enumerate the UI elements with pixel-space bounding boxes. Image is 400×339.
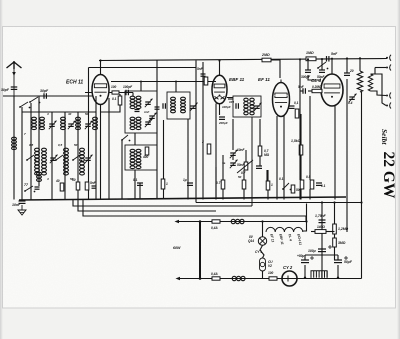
svg-text:1μ: 1μ <box>183 178 187 182</box>
resistor 1.2MΩ <box>333 224 337 234</box>
IF2 coil a <box>171 97 176 100</box>
resistor 1MΩ mid <box>266 181 270 190</box>
svg-text:0,4A: 0,4A <box>211 272 218 276</box>
svg-text:0,5: 0,5 <box>29 143 34 147</box>
svg-text:0.1: 0.1 <box>279 177 284 181</box>
resistor 50k det <box>242 180 246 189</box>
coil L2 <box>40 117 45 120</box>
cap 50uF b <box>334 259 342 261</box>
svg-text:2MΩ: 2MΩ <box>261 53 270 57</box>
svg-text:100: 100 <box>111 85 117 89</box>
resistor 50/1kΩ <box>76 182 80 190</box>
svg-text:100μ: 100μ <box>308 249 316 253</box>
svg-text:1: 1 <box>271 183 273 187</box>
svg-text:10nF: 10nF <box>12 203 21 207</box>
wire det vert x260b <box>259 156 261 166</box>
wire det vert x234 <box>232 119 234 150</box>
heater dropper <box>311 271 327 278</box>
diagonal det wire <box>237 160 253 173</box>
switch top <box>318 62 326 68</box>
wire sec top hook <box>371 74 387 106</box>
svg-text:4: 4 <box>46 177 49 181</box>
wire vert x188 <box>187 119 189 200</box>
wire vert 50uF b <box>337 255 339 260</box>
wire det vert x260 <box>259 119 261 146</box>
tube CY2 rectifier <box>282 271 297 286</box>
resistor 0.5MΩ a <box>300 180 304 189</box>
IF1 trimmer b <box>145 121 151 123</box>
wire vert 50uF a <box>304 255 306 260</box>
cap 0.1uF psu <box>316 182 322 184</box>
wire vert x223 <box>222 155 224 180</box>
cap 10nF trimmer <box>230 152 236 154</box>
svg-text:0.1: 0.1 <box>133 178 138 182</box>
wire vert x310b <box>309 189 311 200</box>
resistor 0.5MΩ b <box>310 180 314 189</box>
wire vert x347 <box>346 59 348 74</box>
wire route y206 <box>73 200 252 207</box>
wire vert x216 low <box>215 167 217 200</box>
wire vert x244 up <box>243 170 245 180</box>
wire psu tie y255 <box>305 254 338 256</box>
wire vert x163 <box>163 120 165 179</box>
scan right edge shadow <box>0 0 1 1</box>
svg-text:Seibt: Seibt <box>380 129 389 145</box>
junction CL4 top <box>346 57 348 59</box>
band switch S1a <box>20 102 28 107</box>
coil L8 <box>64 148 69 151</box>
svg-text:100pF: 100pF <box>123 85 133 89</box>
wire vert 50uF b2 <box>337 265 339 278</box>
coil L14 <box>37 172 42 175</box>
cap 5nF left <box>92 185 97 187</box>
cap 100uF <box>318 248 326 250</box>
wire terminal2 drop <box>374 68 376 75</box>
cap IF1 link <box>135 109 140 111</box>
tube ECH11 <box>92 75 109 105</box>
wire terminal2 wire <box>375 67 386 69</box>
wire CL4 anode up <box>331 59 333 74</box>
wire sec bottom hook <box>371 91 387 96</box>
wire left vert x52 <box>51 112 53 200</box>
svg-text:4: 4 <box>46 112 49 116</box>
wire vert x301b <box>300 155 302 200</box>
band switch S1b <box>30 97 38 102</box>
antenna coupling cap 30pF <box>11 86 18 88</box>
svg-text:0.1: 0.1 <box>112 97 117 101</box>
wire left vert x96 <box>95 96 97 200</box>
wire lamp top <box>262 222 264 237</box>
junction 50a <box>304 277 306 279</box>
switch 77 <box>25 186 33 191</box>
speaker terminal 2 <box>390 65 391 71</box>
wire psu vert x322 <box>321 203 323 280</box>
svg-text:1,75nF: 1,75nF <box>315 214 327 218</box>
wire mains top <box>176 221 306 223</box>
wire vert x310 <box>309 96 311 180</box>
junction dot EBF/B+ <box>218 59 220 61</box>
switch S2c <box>73 155 80 160</box>
junction mains cord top <box>199 220 202 223</box>
svg-text:100: 100 <box>229 100 234 104</box>
wire left vert x14 <box>13 96 15 200</box>
mains plug arrow bottom <box>176 277 181 281</box>
resistor 0.7MΩ b <box>221 180 225 189</box>
resistor 140Ω <box>315 230 326 234</box>
wire IF1 bottom to bus <box>134 170 136 200</box>
svg-text:22 GW: 22 GW <box>380 152 397 199</box>
wire CL4 grid net3 <box>308 75 321 80</box>
svg-text:1,5kΩ: 1,5kΩ <box>291 139 301 143</box>
cap 50uF a <box>301 259 309 261</box>
pilot lamp <box>258 237 266 245</box>
coil L7 <box>42 148 47 151</box>
cap 1uF low <box>187 182 193 184</box>
IF1 box <box>125 91 157 133</box>
cap on x157 <box>155 106 160 108</box>
wire EF grid drop x280 <box>271 60 280 78</box>
output transformer secondary <box>368 74 372 91</box>
wire res bottom link <box>101 105 121 112</box>
wire vert x122 low <box>121 140 123 200</box>
svg-text:0.7: 0.7 <box>241 171 246 175</box>
wire vert x300mid <box>299 91 301 180</box>
trimmer lower b <box>85 157 91 159</box>
wire psu tie 140 left <box>311 231 315 233</box>
IF1 coil d <box>136 117 141 120</box>
coil L4 <box>76 117 81 120</box>
svg-text:50: 50 <box>72 178 76 182</box>
resistor 2MΩ top <box>262 58 271 62</box>
resistor 1/10k <box>161 179 165 189</box>
junction dot ECH/B+ <box>99 59 101 61</box>
speaker terminal 1 <box>390 55 391 61</box>
cap 0.1uF EF <box>289 105 295 107</box>
switch mid <box>283 183 289 189</box>
wire psu tie y233 <box>326 231 335 233</box>
IF1 coil c <box>130 117 135 120</box>
svg-text:100pF: 100pF <box>222 105 231 109</box>
wire IF1 top connect <box>140 82 142 92</box>
svg-text:5nF: 5nF <box>331 52 338 56</box>
wire top B+ bus y60 <box>99 59 387 61</box>
wire ECH osc vert x117 <box>119 94 121 96</box>
svg-text:40: 40 <box>55 179 60 183</box>
wire left vert x22 <box>21 107 23 200</box>
wire vert x300b <box>299 189 301 200</box>
svg-text:2: 2 <box>201 140 204 144</box>
junction t1 <box>359 57 361 59</box>
svg-text:30: 30 <box>68 112 72 116</box>
svg-text:3MΩ: 3MΩ <box>338 241 346 245</box>
IF2 coil b <box>181 97 186 100</box>
wire CU to bottom <box>262 271 264 279</box>
svg-text:50μF: 50μF <box>344 260 353 264</box>
wire prim bottom B+ <box>361 92 363 279</box>
svg-text:MΩ: MΩ <box>264 153 270 157</box>
IF3 trimmer right <box>254 105 260 107</box>
svg-text:30pF: 30pF <box>1 88 10 92</box>
mains plug arrow top <box>175 220 180 224</box>
heater chain scallops <box>266 227 303 232</box>
trimmer on x152 <box>149 115 155 117</box>
svg-text:30pF: 30pF <box>40 89 49 93</box>
wire CL4 grid wire2 <box>308 90 312 92</box>
svg-text:0,5: 0,5 <box>58 143 63 147</box>
ground symbol <box>21 205 23 210</box>
IF1 coil a <box>130 96 135 99</box>
IF3 coil b <box>250 98 254 101</box>
wire vert x140 <box>139 183 141 200</box>
svg-text:V2: V2 <box>268 264 272 268</box>
svg-text:0.7: 0.7 <box>216 181 221 185</box>
wire route y202 <box>196 202 362 204</box>
svg-text:1MΩ: 1MΩ <box>306 51 314 55</box>
svg-text:50pF: 50pF <box>317 75 325 79</box>
resistor 2MΩ vert <box>207 144 211 154</box>
wire vert x203 <box>202 62 204 200</box>
svg-text:140Ω: 140Ω <box>317 225 325 229</box>
wire ECH grid wire y92 <box>109 92 133 94</box>
junction cord bottom <box>199 277 202 280</box>
resistor 1.5k <box>299 145 303 155</box>
cap 5nF top <box>326 56 328 62</box>
cap 300pF <box>305 69 311 71</box>
fuse 0.4A top <box>212 220 220 223</box>
wire vert x268 low <box>267 170 269 181</box>
wire EBF anode down x219 <box>219 104 221 115</box>
svg-text:300pF: 300pF <box>301 75 311 79</box>
svg-text:1: 1 <box>166 182 168 186</box>
wire mains cord vertical <box>199 222 201 279</box>
junction y202/B+ <box>360 201 362 203</box>
resistor 3MΩ <box>333 238 337 247</box>
svg-text:0.4: 0.4 <box>348 101 353 105</box>
ground cap 10nF <box>19 200 26 202</box>
trimmer lower a <box>50 157 56 159</box>
wire ground bus <box>19 197 346 200</box>
cap 20uF CL4 <box>344 72 350 74</box>
trimmer C t1 <box>49 123 55 125</box>
cap 5nF det <box>256 165 262 167</box>
wire ECH anode to bus <box>100 61 102 75</box>
svg-text:0,4A: 0,4A <box>211 226 218 230</box>
wire heater right up <box>303 204 307 232</box>
cap 5nF CL4 grid <box>302 88 304 94</box>
wire AVC line y82 <box>111 81 216 83</box>
wire vert x301 <box>300 114 302 145</box>
wire CL4 grid net <box>307 59 309 70</box>
cap 1.75nF <box>319 219 326 221</box>
wire vert x267 det <box>266 170 268 181</box>
speaker terminal 3 <box>390 93 391 99</box>
switch S2a <box>27 155 34 160</box>
coil L5 <box>93 117 98 120</box>
resistor EF sg <box>295 109 299 118</box>
choke bottom <box>232 276 236 280</box>
trimmer CL4 <box>349 96 355 98</box>
resistor 100Ω grid <box>112 91 119 94</box>
svg-text:Q14: Q14 <box>248 239 254 243</box>
wire IF2 top connect <box>175 82 177 93</box>
wire EBF top to bus <box>219 61 221 76</box>
wire left horiz y112 <box>22 111 96 113</box>
wire psu vert x335 <box>334 203 336 261</box>
resistor 0.2MΩ <box>312 89 322 92</box>
IF2 trimmer right <box>190 105 196 107</box>
wire EF second down <box>283 116 285 200</box>
svg-text:1nF: 1nF <box>144 110 150 114</box>
IF3 coil a <box>244 98 248 101</box>
wire vert x196 <box>195 61 197 203</box>
tube EF11 <box>273 83 290 117</box>
resistor 0.7MΩ <box>244 162 248 170</box>
coil L3 <box>61 117 66 120</box>
fuse 0.4A bottom <box>212 277 220 280</box>
wire CL4 cathode down <box>334 106 336 200</box>
switch S2b <box>56 155 63 160</box>
choke top <box>231 219 235 223</box>
wire vert x268 lowb <box>267 190 269 200</box>
ECH grid in <box>85 92 92 94</box>
svg-text:60W: 60W <box>173 246 181 250</box>
wire ECH osc vert x109 <box>108 98 110 200</box>
cap 0.1uF low <box>137 182 143 184</box>
speaker terminal 4 <box>390 103 391 109</box>
IF1 lower box <box>125 145 157 170</box>
wire ECH box top y67 <box>89 67 197 69</box>
cap 5nF EBF grid <box>201 73 206 75</box>
svg-text:0.1: 0.1 <box>321 184 326 188</box>
wire CL4 grid net2 <box>321 59 323 70</box>
cap 100pF <box>125 90 127 96</box>
wire EF cathode down <box>276 116 278 200</box>
fuse CU V2 <box>260 258 266 271</box>
cap 30pF antenna series <box>43 93 45 99</box>
antenna <box>7 61 22 69</box>
resistor 50kΩ <box>291 185 295 193</box>
IF1 coil b <box>136 96 141 99</box>
wire ECH vert x101 down <box>100 105 102 200</box>
svg-text:EF 11: EF 11 <box>258 77 270 82</box>
wire left vert x65 <box>64 112 66 200</box>
svg-text:0.2MΩ: 0.2MΩ <box>312 85 322 89</box>
wire vert x244 low <box>243 189 245 200</box>
IF2 box <box>167 92 190 119</box>
svg-text:50: 50 <box>296 188 300 192</box>
svg-text:0,1: 0,1 <box>294 101 299 105</box>
svg-text:ECH 11: ECH 11 <box>66 80 83 86</box>
wire EBF cathode down <box>215 104 217 200</box>
resistor 1MΩ top <box>306 57 316 61</box>
resistor 0.3MΩ <box>258 146 262 156</box>
tube EBF11 <box>212 75 227 104</box>
cap EBF cathode <box>219 116 225 118</box>
wire vert x163b <box>163 189 165 200</box>
IF1 trimmer a <box>145 101 151 103</box>
resistor 400Ω <box>145 147 149 155</box>
wire IF3 to EBF anode <box>228 98 233 100</box>
junction psu <box>321 201 323 203</box>
wire vert x223b <box>222 189 224 200</box>
wire vert x157 <box>156 61 158 200</box>
wire det vert x234b <box>232 156 234 160</box>
IF1 coil f <box>136 149 141 152</box>
wire route y216 <box>83 200 306 222</box>
resistor R x87 <box>85 182 89 190</box>
trimmer C t2 <box>68 123 74 125</box>
svg-text:100: 100 <box>268 271 274 275</box>
coil L6 <box>35 148 40 151</box>
wire IF1 mid vert <box>134 133 136 145</box>
cap 50nF trimmer <box>230 162 236 164</box>
switch below IF1 <box>122 135 128 140</box>
wire CL4 grid wire3 <box>321 90 324 92</box>
resistor 1MΩ EBF <box>204 77 208 85</box>
svg-text:EBF 11: EBF 11 <box>229 77 245 82</box>
output transformer primary <box>357 71 362 92</box>
wire left vert x31 <box>30 103 32 200</box>
wire left vert x88 <box>88 68 90 200</box>
resistor 40/1kΩ <box>60 183 64 191</box>
svg-text:10nF: 10nF <box>237 148 245 152</box>
EBF anode out <box>227 97 233 99</box>
tube CL4 <box>321 74 343 106</box>
IF3 cap left <box>235 103 237 109</box>
scan left edge shadow <box>0 0 1 1</box>
svg-text:50: 50 <box>85 112 89 116</box>
wire route y211 <box>78 200 216 212</box>
wire left RF top y96 <box>3 95 93 97</box>
wire det vert x246 <box>245 150 247 162</box>
wire vert 50uF a2 <box>304 265 306 278</box>
cap 50pF <box>319 69 325 71</box>
wire mains bottom <box>177 278 362 280</box>
svg-text:CY 2: CY 2 <box>283 265 293 270</box>
resistor 0.1MΩ/1W <box>118 96 122 105</box>
IF3 box <box>233 96 261 117</box>
wire IF3 vert x252 down <box>251 117 253 206</box>
wire left vert x78 <box>77 112 79 200</box>
junction AVC dots <box>140 81 142 83</box>
svg-text:50: 50 <box>74 143 78 147</box>
wire vert x347b <box>346 79 348 232</box>
svg-text:400: 400 <box>142 155 149 159</box>
resistor 100Ω heater <box>269 277 277 280</box>
svg-text:20: 20 <box>349 69 354 73</box>
coil L ant left <box>12 137 17 140</box>
svg-text:200pF: 200pF <box>218 121 228 125</box>
IF1 coil e <box>130 149 135 152</box>
wire IF1 connect <box>132 93 134 97</box>
wire vert x360 <box>359 58 361 71</box>
svg-text:+50μ: +50μ <box>297 254 304 258</box>
IF2 trimmer left <box>162 103 164 109</box>
cap C pad <box>35 186 40 188</box>
svg-text:50: 50 <box>238 175 242 179</box>
wire CL4 grid wire <box>300 90 303 92</box>
trimmer C t3 <box>85 123 91 125</box>
wire lamp to CU <box>260 245 264 258</box>
coil L1 <box>32 117 37 120</box>
wire left vert x39 <box>38 96 40 186</box>
coil L9 <box>80 148 85 151</box>
wire vert x300 <box>299 59 301 91</box>
